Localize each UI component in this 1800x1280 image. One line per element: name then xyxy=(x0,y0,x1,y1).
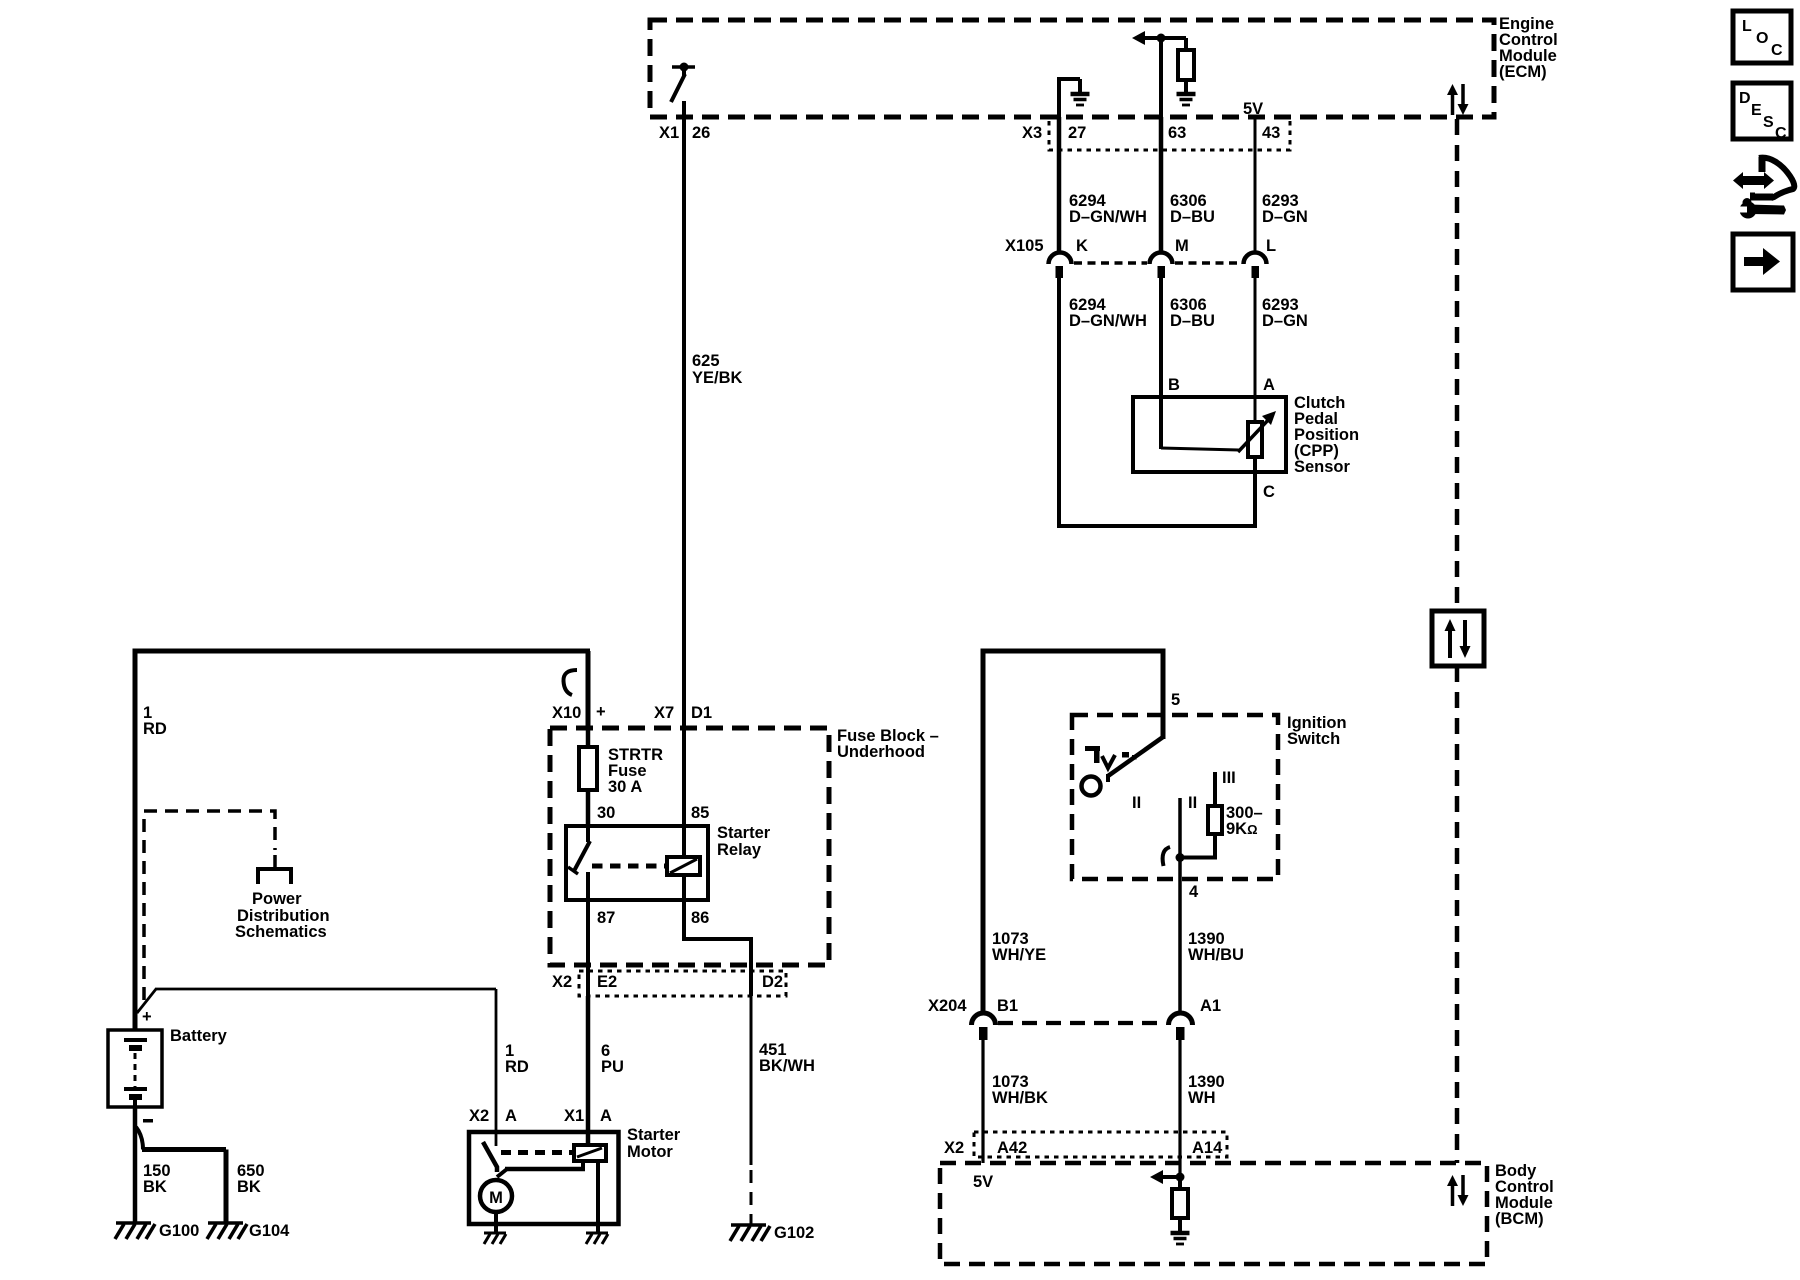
svg-text:X2: X2 xyxy=(944,1139,964,1157)
svg-text:M: M xyxy=(489,1189,503,1207)
label Starter Relay xyxy=(717,824,771,859)
pin E2 label xyxy=(597,973,617,991)
svg-text:X1: X1 xyxy=(659,124,679,142)
ground starter solenoid xyxy=(586,1233,608,1244)
svg-text:B1: B1 xyxy=(997,997,1018,1015)
label 5 ignition pin xyxy=(1171,691,1180,709)
svg-text:G102: G102 xyxy=(774,1224,814,1242)
label STRTR Fuse 30 A xyxy=(608,746,663,796)
svg-text:X2: X2 xyxy=(469,1107,489,1125)
connector X2 starter label xyxy=(469,1107,489,1125)
ground ECM internal left xyxy=(1071,94,1090,105)
label Fuse Block - Underhood xyxy=(837,727,939,761)
svg-text:B: B xyxy=(1168,376,1180,394)
starter motor box xyxy=(469,1132,619,1224)
label 300-9K ohm xyxy=(1226,804,1263,838)
svg-text:A: A xyxy=(600,1107,612,1125)
resistor BCM internal xyxy=(1172,1177,1188,1231)
svg-text:D: D xyxy=(1739,90,1751,107)
label 150 BK xyxy=(143,1162,171,1196)
label 5V ECM xyxy=(1243,100,1263,118)
svg-text:A: A xyxy=(505,1107,517,1125)
wire relay 87 to E2 xyxy=(586,900,590,996)
svg-text:BK: BK xyxy=(143,1178,167,1196)
junction ignition start contact xyxy=(1176,853,1185,862)
label 1390 WH/BU xyxy=(1188,930,1244,964)
serial data box with arrows xyxy=(1432,611,1484,666)
icon LOC box xyxy=(1733,11,1791,63)
svg-text:WH/YE: WH/YE xyxy=(992,946,1046,964)
svg-text:Relay: Relay xyxy=(717,841,762,859)
ground G102 xyxy=(730,1225,770,1241)
svg-text:D2: D2 xyxy=(762,973,783,991)
solenoid coil starter xyxy=(574,1145,606,1161)
wire 6306 lower (X105 M to CPP B) xyxy=(1159,277,1163,449)
pin A label xyxy=(1263,376,1275,394)
connector X204 cavity A1 arc xyxy=(1169,1013,1193,1040)
svg-text:D1: D1 xyxy=(691,704,712,722)
svg-text:D–GN: D–GN xyxy=(1262,208,1308,226)
pin B label xyxy=(1168,376,1180,394)
svg-text:30 A: 30 A xyxy=(608,778,642,796)
BCM dashed box xyxy=(940,1163,1487,1264)
starter mechanical dashed link xyxy=(501,1150,574,1155)
resistor ignition 300-9K xyxy=(1208,806,1222,834)
pin D2 label xyxy=(762,973,783,991)
label G100 xyxy=(159,1222,199,1240)
connector X105 dashed link xyxy=(1074,261,1241,265)
svg-text:87: 87 xyxy=(597,909,615,927)
ignition switch blade xyxy=(1108,737,1163,782)
wire ignition resistor top xyxy=(1213,772,1217,806)
label Ignition Switch xyxy=(1287,714,1347,748)
BCM internal arrow left xyxy=(1150,1170,1185,1184)
svg-text:Power: Power xyxy=(252,890,302,908)
svg-text:A: A xyxy=(1263,376,1275,394)
ground BCM internal xyxy=(1171,1233,1190,1244)
label 6306 D-BU lower xyxy=(1170,296,1215,330)
svg-text:X10: X10 xyxy=(552,704,581,722)
label Clutch Pedal Position (CPP) Sensor xyxy=(1294,394,1359,476)
icon exchange claw and wrench xyxy=(1733,157,1794,219)
wire 6294 upper (pin 27 to X105 K) xyxy=(1057,117,1062,253)
connector X204 label xyxy=(928,997,967,1015)
svg-text:X2: X2 xyxy=(552,973,572,991)
Fuse Block - Underhood dashed box xyxy=(550,728,829,965)
connector X3 dotted box xyxy=(1049,121,1290,150)
wire 6293 upper (pin 43 to X105 L) xyxy=(1254,117,1257,253)
pin L label xyxy=(1266,237,1276,255)
svg-text:X105: X105 xyxy=(1005,237,1044,255)
ECM internal crank-request switch xyxy=(671,63,695,103)
label 6 PU xyxy=(601,1042,624,1076)
pin 30 label xyxy=(597,804,615,822)
svg-text:A42: A42 xyxy=(997,1139,1027,1157)
ground starter motor case xyxy=(484,1233,506,1244)
wire battery feed top loop xyxy=(133,649,591,1031)
pin A14 label xyxy=(1192,1139,1223,1157)
svg-text:L: L xyxy=(1742,18,1752,35)
wire 1073 WH/YE label xyxy=(992,930,1046,964)
pin 27 label xyxy=(1068,124,1086,142)
wire ECM pin 26 down inside box xyxy=(682,101,686,117)
pin 63 label xyxy=(1168,124,1186,142)
ignition key symbol xyxy=(1085,746,1137,768)
svg-text:X3: X3 xyxy=(1022,124,1042,142)
wire 625 YE/BK (ECM 26 to fuse block D1) xyxy=(682,117,686,730)
Ignition Switch dashed box xyxy=(1072,715,1278,879)
wire 1390 WH/BU vertical xyxy=(1178,879,1182,1014)
svg-text:63: 63 xyxy=(1168,124,1186,142)
label II left xyxy=(1132,794,1141,812)
label 4 ignition pin xyxy=(1189,883,1199,901)
label 1390 WH xyxy=(1188,1073,1225,1107)
pin 85 label xyxy=(691,804,709,822)
svg-text:D–GN: D–GN xyxy=(1262,312,1308,330)
svg-text:85: 85 xyxy=(691,804,709,822)
svg-text:Sensor: Sensor xyxy=(1294,458,1351,476)
svg-text:43: 43 xyxy=(1262,124,1280,142)
svg-text:BK: BK xyxy=(237,1178,261,1196)
ignition pivot circle xyxy=(1082,777,1101,796)
connector X2 BCM label xyxy=(944,1139,964,1157)
svg-text:A14: A14 xyxy=(1192,1139,1223,1157)
connector X105 cavity K arc xyxy=(1049,253,1072,279)
label X10 xyxy=(552,704,581,722)
label G104 xyxy=(249,1222,290,1240)
label III xyxy=(1222,769,1236,787)
connector X204 dashed link xyxy=(998,1021,1166,1025)
resistor ECM pull-up xyxy=(1178,38,1194,92)
label 6293 D-GN lower xyxy=(1262,296,1308,330)
wire 6293 lower (X105 L to CPP A) xyxy=(1254,277,1257,424)
svg-text:RD: RD xyxy=(505,1058,529,1076)
label Body Control Module (BCM) xyxy=(1495,1162,1554,1228)
svg-text:26: 26 xyxy=(692,124,710,142)
pin 43 label xyxy=(1262,124,1280,142)
label 1 RD starter cable xyxy=(505,1042,529,1076)
svg-text:Underhood: Underhood xyxy=(837,743,925,761)
svg-text:9KΩ: 9KΩ xyxy=(1226,820,1258,838)
label + battery positive xyxy=(142,1008,152,1026)
svg-text:M: M xyxy=(1175,237,1189,255)
svg-text:4: 4 xyxy=(1189,883,1199,901)
ground ECM internal right xyxy=(1177,94,1196,105)
svg-text:D–GN/WH: D–GN/WH xyxy=(1069,208,1147,226)
label X7 xyxy=(654,704,674,722)
svg-text:D–BU: D–BU xyxy=(1170,208,1215,226)
connector X2 fuse block label xyxy=(552,973,572,991)
wire 6306 upper (pin 63 to X105 M) xyxy=(1159,117,1164,253)
svg-text:X1: X1 xyxy=(564,1107,584,1125)
svg-text:5V: 5V xyxy=(1243,100,1263,118)
pin A1 label xyxy=(1200,997,1221,1015)
connector A42/A14 dotted box xyxy=(974,1132,1227,1157)
svg-text:X204: X204 xyxy=(928,997,967,1015)
pin A42 label xyxy=(997,1139,1027,1157)
svg-text:C: C xyxy=(1771,42,1783,59)
svg-text:Switch: Switch xyxy=(1287,730,1340,748)
wire 1073 WH/BK (B1 to BCM A42) xyxy=(981,1040,984,1163)
ECM internal arrow to left (battery voltage) xyxy=(1132,31,1186,45)
label 1073 WH/BK xyxy=(992,1073,1048,1107)
pin 26 label xyxy=(692,124,710,142)
svg-text:Battery: Battery xyxy=(170,1027,228,1045)
wire solenoid to motor xyxy=(497,1161,585,1177)
label - battery negative xyxy=(143,1119,153,1123)
potentiometer CPP xyxy=(1238,411,1276,457)
svg-text:86: 86 xyxy=(691,909,709,927)
svg-text:D–GN/WH: D–GN/WH xyxy=(1069,312,1147,330)
pin B1 label xyxy=(997,997,1018,1015)
svg-text:WH/BU: WH/BU xyxy=(1188,946,1244,964)
svg-text:A1: A1 xyxy=(1200,997,1221,1015)
CPP wiper link wire xyxy=(1161,448,1239,450)
label 5V BCM xyxy=(973,1173,993,1191)
wire battery negative down xyxy=(133,1107,138,1224)
label 650 BK xyxy=(237,1162,265,1196)
serial data dashed line xyxy=(1455,119,1460,1163)
label 451 BK/WH xyxy=(759,1041,815,1075)
wire motor to ground xyxy=(494,1212,498,1232)
connector X10 hook xyxy=(563,670,577,695)
connector X105 label xyxy=(1005,237,1044,255)
pin K label xyxy=(1076,237,1088,255)
svg-text:S: S xyxy=(1763,114,1774,131)
connector X204 cavity B1 arc xyxy=(972,1013,996,1040)
dashed box Power Distribution xyxy=(144,811,275,1000)
wire 1390 WH (A1 to BCM A14) xyxy=(1178,1040,1181,1177)
ground G100 xyxy=(115,1223,155,1239)
svg-text:RD: RD xyxy=(143,720,167,738)
motor M starter xyxy=(480,1180,512,1212)
label II right xyxy=(1188,794,1197,812)
svg-text:II: II xyxy=(1132,794,1141,812)
svg-text:L: L xyxy=(1266,237,1276,255)
starter contact blade xyxy=(483,1142,497,1172)
connector X3 label xyxy=(1022,124,1042,142)
svg-text:K: K xyxy=(1076,237,1088,255)
wire 6 PU (E2 to starter solenoid) xyxy=(586,996,591,1146)
wire battery positive tap to starter xyxy=(137,989,496,1146)
off-page bracket Power Distribution xyxy=(258,855,291,884)
connector X105 cavity M arc xyxy=(1150,253,1173,279)
svg-text:X7: X7 xyxy=(654,704,674,722)
svg-text:PU: PU xyxy=(601,1058,624,1076)
svg-text:+: + xyxy=(596,703,606,721)
label Power Distribution Schematics xyxy=(235,890,330,941)
svg-text:D–BU: D–BU xyxy=(1170,312,1215,330)
connector X105 cavity L arc xyxy=(1244,253,1267,279)
wire 6294 lower (X105 K to CPP C link) xyxy=(1057,277,1061,526)
label 6294 D-GN/WH upper xyxy=(1069,192,1147,226)
wire 451 BK/WH (D2 to G102) xyxy=(750,996,753,1224)
CPP sensor box xyxy=(1133,397,1286,472)
wire ECM pin 27 internal ground trace xyxy=(1057,79,1080,117)
label Starter Motor xyxy=(627,1126,681,1161)
svg-text:5: 5 xyxy=(1171,691,1180,709)
svg-text:C: C xyxy=(1263,483,1275,501)
label 625 YE/BK xyxy=(692,352,743,387)
svg-text:WH: WH xyxy=(1188,1089,1216,1107)
svg-text:Starter: Starter xyxy=(717,824,771,842)
wire ignition position II contact xyxy=(1178,798,1182,879)
serial data arrows inside ECM xyxy=(1447,84,1469,115)
connector X1 starter label xyxy=(564,1107,584,1125)
svg-text:30: 30 xyxy=(597,804,615,822)
serial data arrows inside BCM xyxy=(1447,1175,1469,1206)
wire ignition resistor bottom to junction xyxy=(1180,834,1215,858)
ECM dashed box xyxy=(650,20,1494,117)
fuse STRTR 30A xyxy=(579,728,597,828)
icon DESC box xyxy=(1733,83,1791,142)
svg-text:625: 625 xyxy=(692,352,720,370)
label Engine Control Module (ECM) xyxy=(1499,15,1558,81)
pin A label starter X1 xyxy=(600,1107,612,1125)
svg-text:(BCM): (BCM) xyxy=(1495,1210,1544,1228)
ground G104 xyxy=(207,1223,247,1239)
label G102 xyxy=(774,1224,814,1242)
pin M label xyxy=(1175,237,1189,255)
relay box Starter Relay xyxy=(566,826,708,900)
battery xyxy=(108,1030,162,1107)
label 1 RD battery feed xyxy=(143,704,167,738)
svg-text:II: II xyxy=(1188,794,1197,812)
pin A label starter X2 xyxy=(505,1107,517,1125)
svg-text:5V: 5V xyxy=(973,1173,993,1191)
pin C label xyxy=(1263,483,1275,501)
pin X1 label xyxy=(659,124,679,142)
connector E2/D2 dotted box xyxy=(579,971,786,996)
relay contact blade xyxy=(568,828,590,900)
wire solenoid output to ground xyxy=(596,1161,600,1232)
pin 86 label xyxy=(691,909,709,927)
label 6306 D-BU upper xyxy=(1170,192,1215,226)
icon arrow box xyxy=(1733,234,1793,290)
svg-text:III: III xyxy=(1222,769,1236,787)
svg-text:C: C xyxy=(1775,125,1787,142)
relay mechanical dashed link xyxy=(592,864,666,869)
svg-text:Schematics: Schematics xyxy=(235,923,327,941)
svg-text:O: O xyxy=(1756,30,1768,47)
label 6293 D-GN upper xyxy=(1262,192,1308,226)
svg-text:BK/WH: BK/WH xyxy=(759,1057,815,1075)
svg-text:E2: E2 xyxy=(597,973,617,991)
wire ECM pin 63 internal vertical xyxy=(1159,38,1163,117)
svg-text:(ECM): (ECM) xyxy=(1499,63,1547,81)
wire ignition feed top loop xyxy=(981,649,1166,1013)
label 6294 D-GN/WH lower xyxy=(1069,296,1147,330)
svg-text:WH/BK: WH/BK xyxy=(992,1089,1048,1107)
wire relay 86 to D2 xyxy=(684,875,751,996)
svg-text:G100: G100 xyxy=(159,1222,199,1240)
label + (fuse stud) xyxy=(596,703,606,721)
wire relay pin 85 xyxy=(682,730,686,857)
svg-text:+: + xyxy=(142,1008,152,1026)
svg-text:Motor: Motor xyxy=(627,1143,673,1161)
momentary spring arc xyxy=(1163,847,1170,866)
wire battery negative branch to G104 xyxy=(136,1127,226,1224)
svg-text:Starter: Starter xyxy=(627,1126,681,1144)
svg-text:G104: G104 xyxy=(249,1222,290,1240)
svg-text:27: 27 xyxy=(1068,124,1086,142)
svg-text:E: E xyxy=(1751,102,1762,119)
relay coil xyxy=(667,857,700,875)
svg-text:YE/BK: YE/BK xyxy=(692,369,743,387)
pin 87 label xyxy=(597,909,615,927)
label Battery xyxy=(170,1027,228,1045)
wire CPP C down and across xyxy=(1057,457,1257,526)
label D1 xyxy=(691,704,712,722)
